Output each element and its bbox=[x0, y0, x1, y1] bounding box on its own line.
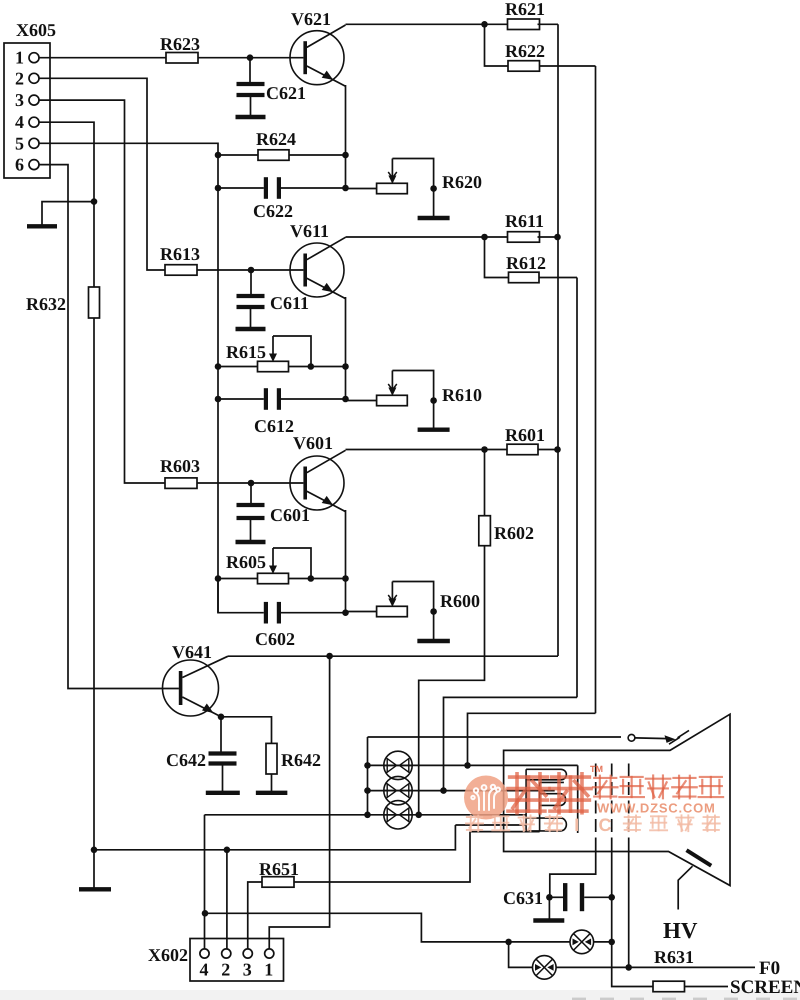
wire G2 to screen bbox=[611, 848, 613, 942]
svg-text:R621: R621 bbox=[505, 0, 545, 19]
svg-text:C612: C612 bbox=[254, 416, 294, 436]
svg-text:R615: R615 bbox=[226, 342, 266, 362]
svg-text:C: C bbox=[599, 815, 612, 835]
resistor R611 bbox=[485, 211, 561, 242]
wire rail2 to spark row2 bbox=[444, 697, 578, 790]
potentiometer R620 bbox=[377, 159, 482, 194]
svg-text:6: 6 bbox=[15, 155, 24, 175]
wire C612 row to R610 bbox=[346, 400, 377, 402]
wire R602 bottom to spark row3 bbox=[419, 546, 485, 815]
resistor R603 bbox=[160, 456, 200, 488]
svg-text:F0: F0 bbox=[759, 958, 780, 979]
wire G3 to F0 bbox=[628, 848, 630, 967]
ground at C631 bbox=[533, 897, 564, 920]
svg-text:R624: R624 bbox=[256, 129, 296, 149]
svg-text:V601: V601 bbox=[293, 433, 333, 453]
wire V641 emitter node bbox=[218, 714, 225, 754]
wire X602 pin4 to row3 bbox=[202, 815, 209, 949]
wire X605 pin3 to R603 bbox=[39, 100, 165, 483]
wire V601 collector to R601 node bbox=[346, 446, 488, 453]
capacitor C621 bbox=[236, 58, 307, 117]
svg-text:V621: V621 bbox=[291, 9, 331, 29]
wire ground row y849.8 bbox=[91, 825, 456, 853]
capacitor C601 bbox=[236, 483, 311, 542]
transistor V621 bbox=[290, 9, 346, 86]
wire left rail x218 bbox=[217, 155, 219, 613]
svg-text:R605: R605 bbox=[226, 552, 266, 572]
capacitor C602 bbox=[218, 579, 349, 650]
watermark brand text bbox=[508, 764, 723, 816]
svg-text:R642: R642 bbox=[281, 750, 321, 770]
svg-text:X605: X605 bbox=[16, 20, 56, 40]
svg-text:2: 2 bbox=[15, 68, 24, 88]
capacitor C642 bbox=[166, 750, 240, 794]
wire heater line y913-941 bbox=[205, 913, 512, 945]
CRT grid G1 dashed bbox=[595, 764, 597, 849]
wire heater feed b bbox=[470, 831, 540, 833]
connector X605 bbox=[4, 20, 56, 178]
transistor V601 bbox=[290, 433, 346, 512]
heater lamp A bbox=[509, 930, 615, 954]
wire X605 pin6 to V641 base bbox=[39, 165, 179, 689]
CRT cathode 2 bbox=[540, 782, 566, 831]
svg-text:V611: V611 bbox=[290, 221, 329, 241]
svg-text:C611: C611 bbox=[270, 293, 309, 313]
svg-text:R622: R622 bbox=[505, 41, 545, 61]
watermark logo bbox=[464, 776, 508, 820]
wire X605 pin1 to R623 bbox=[39, 57, 166, 59]
svg-text:C602: C602 bbox=[255, 629, 295, 649]
resistor R632 bbox=[26, 287, 100, 318]
wire heater feed a bbox=[455, 824, 526, 826]
svg-text:R612: R612 bbox=[506, 253, 546, 273]
resistor R624 bbox=[215, 129, 349, 160]
svg-text:R631: R631 bbox=[654, 947, 694, 967]
svg-text:5: 5 bbox=[15, 133, 24, 153]
svg-text:R602: R602 bbox=[494, 523, 534, 543]
svg-text:1: 1 bbox=[15, 48, 24, 68]
wire rail3 to spark row1 bbox=[468, 713, 596, 765]
footer band bbox=[0, 990, 800, 1000]
wire X605 pin5 to R624 row bbox=[39, 143, 218, 155]
wire X602 pin1 to V641 collector bbox=[269, 656, 329, 949]
svg-text:2: 2 bbox=[221, 960, 230, 980]
resistor R612 bbox=[485, 237, 578, 283]
svg-text:3: 3 bbox=[243, 960, 252, 980]
resistor R622 bbox=[485, 24, 596, 71]
spark gap F3 bbox=[384, 801, 412, 829]
resistor R621 bbox=[485, 0, 559, 30]
svg-text:C642: C642 bbox=[166, 750, 206, 770]
svg-text:R601: R601 bbox=[505, 425, 545, 445]
wire X602 pin2 to ground row bbox=[226, 850, 228, 949]
wire V611 emitter rail bbox=[345, 297, 347, 399]
capacitor C611 bbox=[236, 270, 310, 329]
CRT coating terminal bbox=[368, 730, 690, 744]
resistor R631 and screen wire bbox=[612, 942, 800, 998]
wire V621 collector to R621/R622 node bbox=[346, 21, 488, 28]
ground at R610 bbox=[418, 401, 450, 431]
wire X605 pin2 to R613 bbox=[39, 78, 165, 270]
wire V641 collector row y656 bbox=[228, 653, 558, 660]
wire X605 pin4 ground rail bbox=[39, 122, 97, 887]
svg-text:HV: HV bbox=[663, 918, 698, 943]
wire rail R612 output x577 bbox=[576, 278, 578, 698]
svg-text:R610: R610 bbox=[442, 385, 482, 405]
ground at X605 bbox=[27, 202, 94, 227]
CRT anode HV bbox=[663, 850, 711, 943]
svg-text:4: 4 bbox=[200, 960, 209, 980]
ground bottom left bbox=[79, 887, 111, 891]
svg-text:SCREEN: SCREEN bbox=[730, 977, 800, 998]
spark gap F2 bbox=[384, 776, 412, 804]
potentiometer R610 bbox=[377, 371, 482, 406]
svg-text:R623: R623 bbox=[160, 34, 200, 54]
resistor R602 bbox=[479, 450, 534, 546]
wire rail R622 output x595 bbox=[595, 66, 597, 713]
svg-text:WWW.DZSC.COM: WWW.DZSC.COM bbox=[597, 801, 716, 816]
spark gap F1 bbox=[384, 751, 412, 779]
wire cathode row3 bbox=[205, 812, 527, 819]
connector X602 bbox=[148, 939, 284, 982]
svg-text:R632: R632 bbox=[26, 294, 66, 314]
wire cathode row2 bbox=[364, 787, 555, 794]
wire rail R621 output x558 bbox=[557, 24, 559, 656]
resistor R613 bbox=[160, 244, 200, 275]
CRT envelope bbox=[504, 714, 730, 885]
ground at R620 bbox=[418, 189, 450, 219]
wire C622 row to R620 bbox=[346, 188, 377, 190]
wire V621 emitter rail bbox=[345, 85, 347, 188]
svg-text:R603: R603 bbox=[160, 456, 200, 476]
transistor V641 bbox=[163, 642, 229, 717]
capacitor C622 bbox=[215, 177, 349, 221]
svg-text:R620: R620 bbox=[442, 172, 482, 192]
svg-text:I: I bbox=[574, 815, 579, 835]
svg-text:4: 4 bbox=[15, 112, 24, 132]
wire cathode row1 bbox=[364, 762, 578, 833]
CRT cathode 1 bbox=[526, 769, 566, 831]
resistor R601 bbox=[485, 425, 561, 455]
svg-text:3: 3 bbox=[15, 90, 24, 110]
wire V601 emitter rail bbox=[345, 510, 347, 613]
wire V611 collector to R611/R612 node bbox=[346, 234, 488, 241]
wire R613 to V611 base bbox=[197, 267, 303, 274]
svg-text:C601: C601 bbox=[270, 505, 310, 525]
svg-text:X602: X602 bbox=[148, 945, 188, 965]
wire R623 to V621 base bbox=[198, 54, 303, 61]
transistor V611 bbox=[290, 221, 346, 299]
svg-text:C622: C622 bbox=[253, 201, 293, 221]
ground at R600 bbox=[417, 612, 450, 642]
svg-text:V641: V641 bbox=[172, 642, 212, 662]
resistor R642 bbox=[221, 717, 321, 794]
potentiometer R600 bbox=[377, 582, 480, 617]
potentiometer R605 bbox=[215, 548, 349, 584]
svg-text:R613: R613 bbox=[160, 244, 200, 264]
wire spark common rail bbox=[367, 737, 369, 815]
svg-text:R651: R651 bbox=[259, 859, 299, 879]
svg-text:TM: TM bbox=[590, 764, 603, 774]
wire C602 row to R600 bbox=[346, 611, 377, 613]
svg-text:R600: R600 bbox=[440, 591, 480, 611]
resistor R651 bbox=[248, 832, 470, 949]
svg-text:C631: C631 bbox=[503, 888, 543, 908]
heater lamp B bbox=[509, 942, 632, 979]
svg-text:1: 1 bbox=[264, 960, 273, 980]
capacitor C631 bbox=[503, 848, 615, 911]
svg-text:C621: C621 bbox=[266, 83, 306, 103]
CRT cathode 3 bbox=[526, 818, 566, 831]
wire F0 bbox=[629, 958, 780, 979]
svg-text:R611: R611 bbox=[505, 211, 544, 231]
CRT grid G2 dashed bbox=[611, 764, 613, 849]
CRT grid G3 dashed bbox=[628, 764, 630, 849]
potentiometer R615 bbox=[215, 336, 349, 372]
resistor R623 bbox=[160, 34, 200, 63]
wire R603 to V601 base bbox=[197, 480, 303, 487]
watermark slogan bbox=[466, 815, 720, 835]
capacitor C612 bbox=[215, 388, 349, 436]
